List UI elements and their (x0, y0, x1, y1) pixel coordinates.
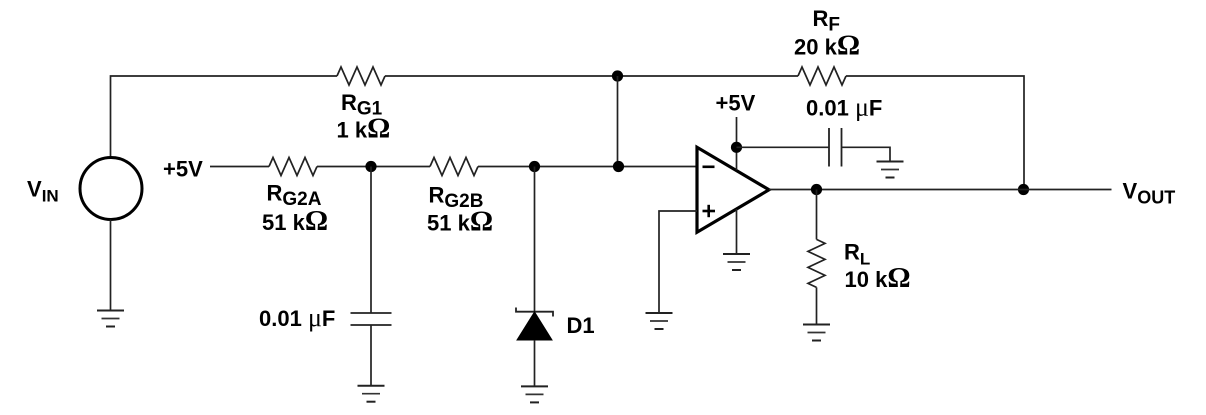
node A junction (365, 161, 376, 172)
wire: +5V to RG2A (210, 166, 269, 168)
capacitor C2 plates (829, 128, 842, 167)
op-amp U1 (697, 147, 769, 232)
wire: VIN top to RG1 (111, 76, 338, 158)
capacitor C1 plates (351, 313, 392, 325)
wire: node E to RL (816, 190, 818, 240)
wire: RG2A to RG2B through node A (317, 166, 430, 168)
node B junction (529, 161, 540, 172)
wire: D1 to ground (534, 340, 536, 386)
svg-text:VOUT: VOUT (1123, 179, 1176, 208)
svg-text:+5V: +5V (163, 157, 203, 182)
ground: below RL (803, 325, 830, 341)
svg-text:51 kΩ: 51 kΩ (427, 206, 493, 238)
zener diode D1 (516, 308, 553, 341)
node E junction (811, 184, 822, 195)
wire: RG1 to RF through node D (385, 75, 798, 77)
resistor RL (808, 239, 825, 287)
resistor RG2B (430, 158, 478, 176)
node supply junction (731, 142, 742, 153)
wire: RF right and down to node F (846, 76, 1024, 190)
ground: op-amp bottom (723, 254, 750, 270)
resistor RG2A (269, 158, 317, 176)
wire: C2 to ground (842, 147, 891, 161)
wire: RG2B to op-amp inverting input (478, 166, 697, 168)
node C junction (613, 161, 624, 172)
op-amp U1 inverting input marker (703, 166, 715, 169)
ground: non-inverting input (646, 313, 673, 329)
svg-text:D1: D1 (567, 313, 595, 338)
svg-text:VIN: VIN (27, 177, 59, 206)
wire: node A to capacitor C1 (370, 167, 372, 314)
wire: C1 to ground (370, 325, 372, 386)
node D junction (612, 70, 623, 81)
ground: below VIN (97, 311, 124, 327)
wire: op-amp negative supply to ground (736, 209, 738, 254)
svg-text:51 kΩ: 51 kΩ (262, 205, 328, 237)
wire: supply node to capacitor C2 (737, 146, 830, 148)
resistor RG1 (337, 67, 385, 85)
svg-text:RL: RL (844, 240, 870, 269)
wire: node D down to node C (617, 76, 619, 167)
svg-text:1 kΩ: 1 kΩ (337, 113, 391, 145)
wire: non-inverting input to ground (659, 211, 697, 313)
voltage source VIN (80, 158, 142, 220)
svg-text:+5V: +5V (716, 91, 756, 116)
wire: node B to zener D1 (534, 167, 536, 312)
ground: right of C2 (877, 162, 904, 178)
wire: RL to ground (816, 287, 818, 324)
svg-text:0.01 μF: 0.01 μF (806, 93, 882, 122)
svg-text:0.01 μF: 0.01 μF (259, 303, 335, 332)
node F junction (VOUT node) (1018, 184, 1029, 195)
svg-text:20 kΩ: 20 kΩ (794, 30, 860, 62)
ground: below C1 (358, 386, 385, 402)
op-amp U1 non-inverting input marker (703, 205, 716, 217)
svg-text:10 kΩ: 10 kΩ (845, 262, 911, 294)
wire: +5V supply into op-amp (736, 117, 738, 170)
wire: op-amp output to VOUT (769, 189, 1112, 191)
wire: VIN to ground (110, 220, 112, 311)
ground: below D1 (521, 386, 548, 402)
resistor RF (798, 67, 846, 85)
